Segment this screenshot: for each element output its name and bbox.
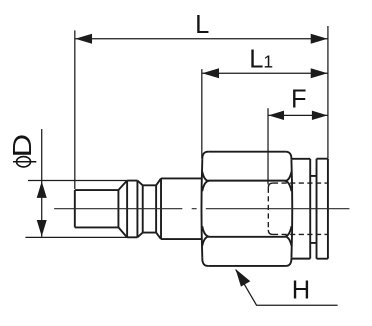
land cylinder	[161, 178, 202, 239]
dimension L arrow right	[311, 34, 328, 44]
label phi (diameter symbol, rotated)	[17, 157, 31, 167]
dimension F arrow right	[312, 111, 328, 120]
hex bottom edge	[208, 265, 286, 267]
hex chamfer pinch right-top	[286, 172, 292, 192]
phi-D extension line bottom	[25, 236, 127, 238]
part outline: plug stem	[75, 178, 202, 239]
phi-D dimension line	[41, 129, 43, 237]
dimension L arrow left	[75, 34, 92, 44]
hex flat line lower	[208, 236, 285, 238]
hidden bore dashed corners	[268, 183, 273, 234]
svg-text:L: L	[195, 11, 209, 39]
chamfer collar to groove	[137, 181, 142, 238]
stem rectangle	[75, 190, 119, 227]
phi-D extension line top	[28, 180, 127, 182]
shared right extension line	[327, 26, 329, 158]
groove band	[143, 185, 156, 232]
hex top-right corner arc	[286, 152, 292, 160]
hex flat line upper	[208, 180, 285, 182]
release ring 2	[317, 159, 328, 259]
svg-text:D: D	[8, 134, 37, 158]
hex top-left corner arc	[202, 152, 208, 160]
dimension L line	[75, 38, 328, 40]
hex top edge	[208, 151, 286, 153]
dimension L1 arrow left	[202, 68, 219, 78]
collet ring 1	[292, 159, 310, 259]
hex bottom-right corner arc	[286, 258, 292, 266]
hex left edge (slightly bowed)	[200, 160, 203, 258]
hex bottom-left corner arc	[202, 258, 208, 266]
svg-text:H: H	[292, 277, 310, 305]
phi-D arrow down	[37, 220, 47, 236]
neck between rings	[310, 176, 316, 243]
center line	[54, 208, 349, 210]
dimension F extension line left	[267, 108, 269, 184]
hex chamfer pinch left-top	[202, 172, 208, 192]
svg-text:F: F	[291, 86, 307, 114]
dimension L1 arrow right	[311, 68, 328, 78]
hex right edge (slightly bowed)	[290, 160, 293, 258]
hex chamfer pinch left-bottom	[202, 226, 208, 246]
dimension F arrow left	[268, 111, 284, 120]
H leader line	[236, 270, 338, 306]
phi-D arrow up	[37, 181, 47, 197]
dimension L1 line	[202, 72, 328, 74]
dimension L1 extension line left	[201, 69, 203, 158]
collar band	[127, 181, 137, 238]
hidden bore dashed outline	[268, 183, 327, 234]
chamfer cone stem to collar	[118, 181, 127, 238]
hex nut body	[201, 152, 292, 266]
dimension F line	[268, 114, 328, 116]
dimension L extension line left	[74, 30, 76, 189]
chamfer groove to land	[156, 178, 161, 239]
hex chamfer pinch right-bottom	[286, 226, 292, 246]
H leader arrowhead	[236, 269, 251, 287]
